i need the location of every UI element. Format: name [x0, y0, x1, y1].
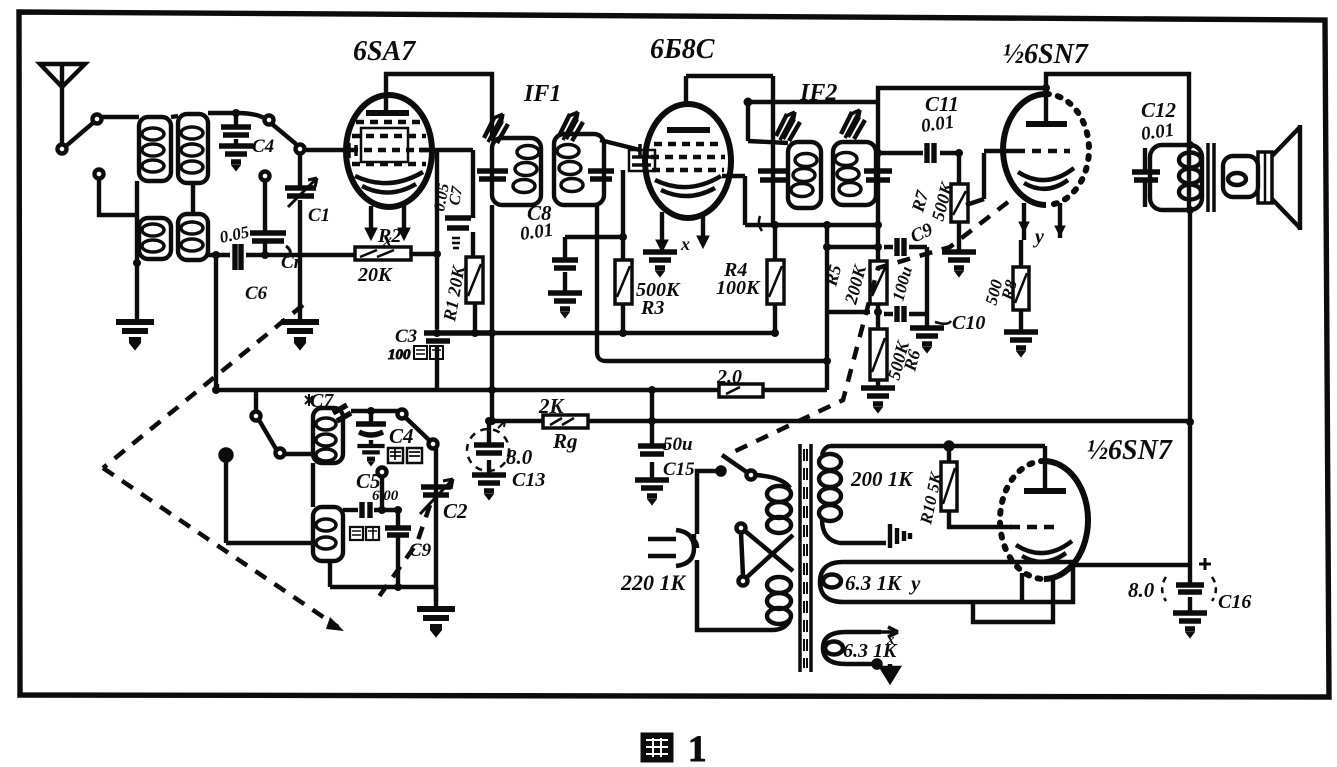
svg-text:50u: 50u: [663, 434, 693, 455]
svg-text:100: 100: [388, 347, 411, 363]
svg-text:6.3 1K: 6.3 1K: [845, 571, 903, 595]
svg-text:6Ƃ8C: 6Ƃ8C: [650, 34, 715, 65]
svg-text:x: x: [886, 632, 895, 648]
svg-text:220 1K: 220 1K: [620, 570, 687, 595]
svg-text:C15: C15: [663, 459, 695, 480]
svg-text:IF1: IF1: [523, 81, 561, 107]
svg-text:2.0: 2.0: [716, 366, 742, 388]
svg-text:x: x: [680, 234, 690, 254]
svg-text:20K: 20K: [357, 264, 393, 286]
svg-text:y: y: [1033, 226, 1044, 248]
svg-text:C4: C4: [252, 136, 274, 157]
svg-text:C2: C2: [443, 499, 468, 523]
svg-text:6·00: 6·00: [372, 488, 399, 504]
svg-text:Rg: Rg: [552, 429, 578, 453]
svg-text:C13: C13: [512, 469, 545, 491]
svg-text:100K: 100K: [716, 277, 761, 299]
svg-text:R3: R3: [640, 297, 664, 319]
svg-text:C1: C1: [308, 205, 330, 226]
svg-text:½6SN7: ½6SN7: [1003, 39, 1089, 70]
svg-text:R2: R2: [377, 225, 401, 247]
svg-text:C7: C7: [310, 390, 334, 412]
svg-text:C6: C6: [245, 283, 268, 304]
svg-text:C12: C12: [1141, 98, 1177, 122]
svg-text:C10: C10: [952, 312, 985, 334]
svg-text:8.0: 8.0: [1128, 578, 1155, 602]
svg-text:200 1K: 200 1K: [850, 467, 914, 491]
svg-text:1: 1: [688, 729, 707, 767]
svg-text:C3: C3: [395, 326, 417, 347]
svg-text:8.0: 8.0: [506, 445, 533, 469]
svg-text:Cr: Cr: [281, 252, 302, 273]
svg-text:C4: C4: [389, 424, 414, 448]
svg-text:½6SN7: ½6SN7: [1087, 435, 1173, 466]
svg-text:6SA7: 6SA7: [353, 36, 416, 67]
svg-text:C16: C16: [1218, 591, 1251, 613]
svg-text:2K: 2K: [538, 394, 566, 418]
